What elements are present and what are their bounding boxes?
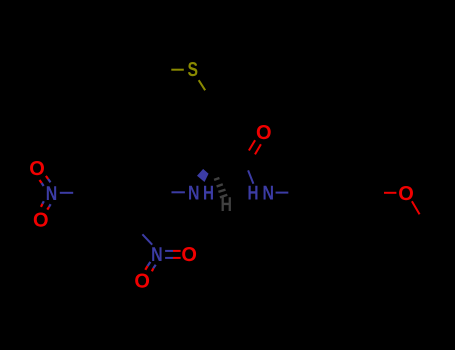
svg-text:H: H: [203, 183, 214, 205]
nitro2 N=O right double bond line 2 red half: [173, 257, 181, 259]
svg-text:N: N: [188, 183, 200, 205]
bond N-aryl amine (blue half near N): [171, 191, 185, 193]
stereo wedge C*-N (carbon half, black): [203, 166, 218, 174]
stereo hash dash 3 (gray): [218, 190, 225, 192]
nitro1 N=O top double bond line 2 red half: [40, 180, 42, 183]
svg-text:O: O: [33, 209, 49, 231]
bond aryl-N nitro2 (carbon half, black): [128, 215, 142, 234]
svg-text:H: H: [248, 183, 259, 205]
nitro2 N=O lower-left double bond line 1 red half: [145, 266, 147, 270]
carbonyl C=O double bond line 1 (red half near O): [249, 140, 255, 150]
svg-text:H: H: [220, 194, 232, 216]
svg-text:O: O: [134, 270, 150, 292]
bond N-aryl amine (carbon half, black): [151, 191, 172, 194]
svg-text:O: O: [181, 244, 197, 266]
bond O-CH3 methoxy (red half near O): [412, 201, 420, 214]
bond aryl-N nitro1 (blue half near N): [60, 192, 73, 194]
bond aryl-N nitro1 (carbon half, black): [73, 192, 87, 194]
bond CH2-CH2-C* chain (black): [216, 106, 219, 166]
dinitrophenyl ring (black, invisible): [88, 162, 151, 221]
bond N-aryl (blue half near N): [276, 192, 289, 194]
nitro1 N=O top double bond line 1 blue half: [48, 179, 50, 182]
bond O-CH3 methoxy (carbon half, black): [420, 214, 433, 236]
nitro2 N=O lower-left double bond line 2 blue half: [153, 265, 155, 269]
svg-text:N: N: [46, 183, 58, 205]
nitro1 N=O bottom double bond line 1 red half: [47, 207, 49, 210]
stereo hash dash 2 (gray): [217, 184, 223, 186]
stereo wedge C*-N (blue half near N, filled): [197, 169, 209, 182]
svg-text:N: N: [151, 244, 163, 266]
nitro2 N=O right double bond line 1 red half: [173, 250, 181, 252]
stereo hash bond C*-H: dash 1 (gray): [214, 178, 219, 180]
methoxyphenyl ring (black, invisible): [311, 158, 373, 227]
nitro1 N=O top double bond line 2 blue half: [42, 183, 44, 186]
nitro2 N=O lower-left double bond line 2 red half: [152, 268, 153, 271]
svg-text:N: N: [263, 183, 275, 205]
nitro1 N=O bottom double bond line 2 blue half: [42, 201, 43, 204]
bond S-CH2 (sulfur half, olive): [199, 80, 206, 90]
nitro2 N=O right double bond line 2 blue half: [165, 257, 173, 259]
svg-text:O: O: [29, 158, 45, 180]
bond C*-C(=O) (black): [219, 157, 244, 166]
nitro1 N=O bottom double bond line 1 blue half: [49, 204, 51, 207]
wire: bond CH3-S (carbon half, black): [149, 69, 172, 71]
stereo hash dash 4 (gray): [220, 195, 227, 198]
nitro2 N=O lower-left double bond line 1 blue half: [148, 262, 151, 266]
bond aryl-O methoxy (red half near O): [384, 192, 396, 194]
bond C(=O)-N amide (blue half near N): [248, 170, 253, 183]
nitro1 N=O bottom double bond line 2 red half: [41, 204, 42, 207]
svg-text:S: S: [188, 59, 199, 81]
bond aryl-N nitro2 (blue half near N): [142, 234, 152, 244]
bond CH3-S (sulfur half, olive): [171, 69, 184, 71]
svg-text:O: O: [256, 122, 272, 144]
carbonyl C=O double bond line 2 (red half near O): [255, 144, 261, 154]
bond S-CH2 (carbon half, black): [205, 90, 216, 106]
nitro2 N=O right double bond line 1 blue half: [165, 250, 173, 252]
nitro1 N=O top double bond line 1 red half: [46, 176, 48, 179]
bond N-aryl (carbon half, black): [288, 192, 310, 194]
